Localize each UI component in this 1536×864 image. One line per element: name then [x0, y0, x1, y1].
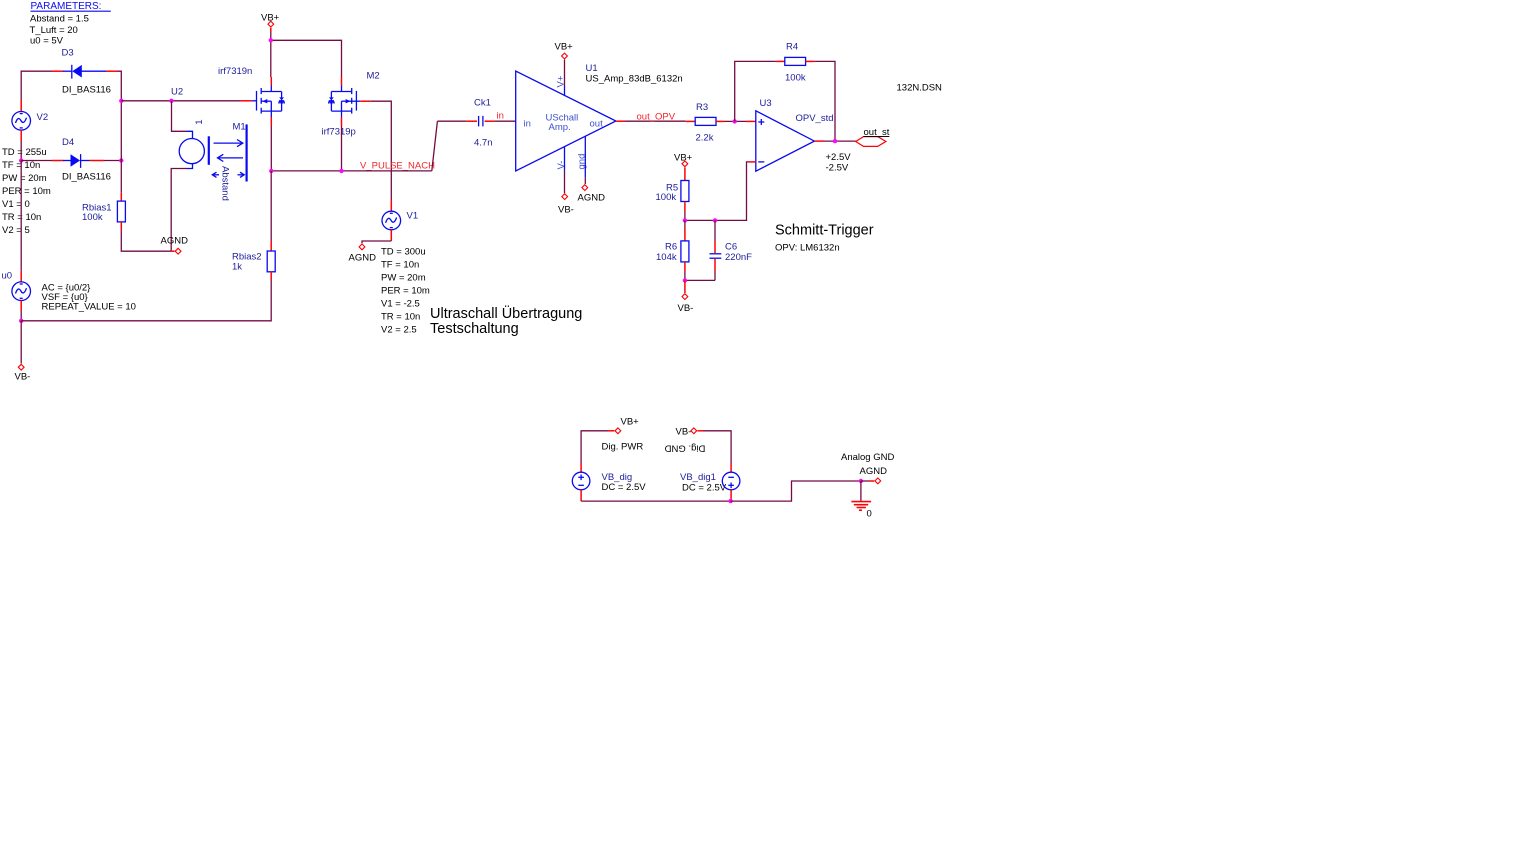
transistor Q1 irf7319n: [218, 66, 284, 126]
wire bottom dig rail: [581, 500, 731, 502]
svg-text:VB+: VB+: [555, 42, 574, 53]
svg-text:R6: R6: [665, 242, 677, 253]
node U2 junction: [119, 99, 123, 103]
resistor Rbias2: [232, 241, 275, 281]
svg-text:DI_BAS116: DI_BAS116: [62, 172, 111, 183]
wire Ck1 to U1: [495, 120, 516, 122]
diode D3: [26, 48, 118, 96]
svg-text:0: 0: [867, 509, 872, 520]
svg-text:T_Luft = 20: T_Luft = 20: [30, 25, 78, 36]
wire top-left loop to D3: [21, 71, 121, 101]
ground 0 symbol: [851, 502, 871, 520]
node junction u0 bottom: [19, 319, 23, 323]
source u0: [2, 271, 31, 312]
power terminal VB- R6: [678, 280, 694, 314]
svg-text:V1 = 0: V1 = 0: [2, 199, 30, 210]
pulse source V1: [382, 200, 418, 242]
svg-text:US_Amp_83dB_6132n: US_Amp_83dB_6132n: [586, 74, 683, 85]
ground terminal AGND V1: [349, 244, 377, 264]
svg-text:M2: M2: [367, 71, 380, 82]
svg-text:+2.5V: +2.5V: [826, 152, 852, 163]
svg-text:220nF: 220nF: [725, 252, 752, 263]
svg-text:2.2k: 2.2k: [696, 133, 714, 144]
wire V1 to AGND: [362, 241, 391, 243]
wire VB- to VB_dig1: [704, 431, 732, 463]
V2 parameter text: [2, 147, 51, 236]
svg-text:V1: V1: [407, 211, 419, 222]
Schmitt-Trigger text: [775, 223, 874, 254]
svg-text:4.7n: 4.7n: [474, 138, 493, 149]
svg-text:D4: D4: [62, 137, 74, 148]
off-page connector out_st: [856, 127, 890, 146]
wire U1 output: [616, 120, 686, 122]
wire U3 output: [814, 140, 855, 142]
svg-text:VB+: VB+: [621, 417, 640, 428]
power terminal VB- dig: [676, 427, 704, 438]
V1 parameter text: [381, 247, 430, 336]
svg-text:Ultraschall Übertragung: Ultraschall Übertragung: [430, 304, 582, 322]
svg-text:V1 = -2.5: V1 = -2.5: [381, 299, 420, 310]
wire Rbias2 top: [270, 171, 272, 241]
svg-text:Ck1: Ck1: [474, 98, 491, 109]
node junction dig rail: [728, 499, 732, 503]
wire V2 to D4 node: [20, 141, 22, 161]
power terminal VB+ R5: [674, 153, 693, 181]
svg-text:R3: R3: [696, 102, 708, 113]
svg-text:-2.5V: -2.5V: [826, 163, 849, 174]
svg-text:1: 1: [194, 120, 205, 125]
svg-text:AGND: AGND: [860, 466, 888, 477]
svg-text:V_PULSE_NACH: V_PULSE_NACH: [360, 160, 435, 171]
wire u0 to bottom node: [20, 311, 22, 321]
svg-text:VB-: VB-: [676, 427, 692, 438]
svg-text:REPEAT_VALUE = 10: REPEAT_VALUE = 10: [42, 302, 136, 313]
svg-text:Abstand = 1.5: Abstand = 1.5: [30, 14, 89, 25]
node junction M2 source: [339, 169, 343, 173]
svg-text:DC = 2.5V: DC = 2.5V: [682, 483, 727, 494]
svg-text:TF = 10n: TF = 10n: [381, 260, 419, 271]
svg-text:Testschaltung: Testschaltung: [430, 321, 519, 337]
op-amp U3 OPV_std: [756, 98, 834, 171]
u0 parameter text: [42, 283, 136, 313]
power terminal VB+ top: [261, 13, 280, 33]
svg-text:VB-: VB-: [678, 303, 694, 314]
svg-text:VB_dig1: VB_dig1: [680, 472, 716, 483]
svg-text:out_OPV: out_OPV: [637, 111, 676, 122]
ground terminal AGND right: [841, 452, 894, 484]
svg-text:1k: 1k: [232, 261, 242, 272]
svg-text:OPV: LM6132n: OPV: LM6132n: [775, 242, 840, 253]
wire NMOS source down to V_PULSE row: [270, 126, 272, 171]
wire bottom row to Rbias2: [21, 280, 271, 321]
parameters text block: [30, 1, 111, 47]
svg-text:V-: V-: [556, 161, 567, 170]
svg-text:Amp.: Amp.: [549, 122, 571, 133]
power terminal VB- left: [15, 364, 31, 382]
title text: [430, 304, 582, 337]
svg-text:OPV_std: OPV_std: [796, 113, 834, 124]
net V_PULSE_NACH wire row: [271, 121, 437, 171]
svg-text:132N.DSN: 132N.DSN: [897, 83, 943, 94]
dc source VB_dig1: [680, 463, 740, 501]
dc source VB_dig: [572, 463, 646, 501]
node junction VB+ rail: [269, 38, 273, 42]
power terminal VB+ U1: [555, 42, 574, 86]
capacitor C6: [710, 220, 753, 280]
svg-text:C6: C6: [725, 242, 737, 253]
svg-text:AGND: AGND: [578, 193, 606, 204]
U3 output voltage text: [826, 152, 852, 174]
svg-text:VB-: VB-: [558, 205, 574, 216]
wire U2 down to transducer: [172, 101, 187, 132]
node junction R5 R6: [683, 218, 687, 222]
svg-text:PER = 10m: PER = 10m: [381, 286, 430, 297]
resistor R5: [656, 181, 689, 221]
node junction NMOS source Rbias2: [269, 169, 273, 173]
svg-text:VB-: VB-: [15, 372, 31, 383]
svg-text:Schmitt-Trigger: Schmitt-Trigger: [775, 223, 874, 239]
node junction left D4: [19, 158, 23, 162]
svg-text:V2 = 2.5: V2 = 2.5: [381, 325, 417, 336]
capacitor Ck1: [466, 98, 495, 149]
wire U2 gate row: [121, 86, 240, 101]
wire elbow to Ck1: [437, 120, 466, 122]
svg-text:in: in: [524, 119, 531, 130]
svg-text:AGND: AGND: [349, 253, 377, 264]
svg-text:irf7319p: irf7319p: [322, 127, 356, 138]
wire M2 source down to V_PULSE row: [341, 126, 343, 171]
svg-text:irf7319n: irf7319n: [218, 66, 252, 77]
svg-text:U2: U2: [171, 86, 183, 97]
resistor Rbias1: [82, 193, 125, 231]
svg-text:TD = 300u: TD = 300u: [381, 247, 426, 258]
svg-text:PW = 20m: PW = 20m: [381, 273, 426, 284]
svg-text:M1: M1: [233, 122, 246, 133]
wire left column V2 to u0: [20, 161, 22, 271]
wire R4 down to output node: [815, 61, 835, 141]
op-amp U1 USchall Amp: [516, 63, 683, 178]
wire dig rail to analog gnd: [731, 481, 861, 501]
wire R3 to U3: [725, 120, 756, 122]
wire right column D3/D4 to Rbias1: [120, 101, 122, 193]
transducer M1: [179, 120, 246, 201]
svg-text:Dig. GND: Dig. GND: [665, 443, 706, 454]
svg-text:V2: V2: [37, 112, 49, 123]
wire feedback up to R4: [735, 61, 776, 121]
node junction right D4: [119, 158, 123, 162]
power terminal VB+ dig: [608, 417, 639, 434]
node junction U3 output: [833, 139, 837, 143]
svg-text:R4: R4: [786, 42, 798, 53]
diode D4: [21, 137, 121, 183]
resistor R6: [656, 220, 689, 280]
svg-text:Analog GND: Analog GND: [841, 452, 894, 463]
wire M2 gate to V1: [371, 101, 392, 199]
wire VB+ to VB_dig: [581, 431, 608, 463]
svg-text:100k: 100k: [785, 73, 806, 84]
svg-text:U1: U1: [586, 63, 598, 74]
svg-text:100k: 100k: [656, 192, 677, 203]
ground terminal AGND U1: [578, 178, 606, 204]
wire C6 bottom to R6 bottom: [685, 279, 715, 281]
wire Rbias1 to AGND: [121, 231, 171, 252]
svg-text:104k: 104k: [656, 252, 677, 263]
svg-text:TD = 255u: TD = 255u: [2, 147, 47, 158]
svg-text:PER = 10m: PER = 10m: [2, 186, 51, 197]
svg-text:out: out: [590, 119, 604, 130]
wire u0 to VB- terminal: [20, 321, 22, 364]
transistor Q2 irf7319p M2: [322, 71, 380, 138]
svg-text:out_st: out_st: [864, 127, 890, 138]
power terminal VB- U1: [558, 171, 574, 216]
node junction R3 feedback: [733, 119, 737, 123]
svg-text:100k: 100k: [82, 212, 103, 223]
svg-text:Abstand: Abstand: [220, 166, 231, 201]
svg-text:TR = 10n: TR = 10n: [381, 312, 420, 323]
svg-text:D3: D3: [62, 48, 74, 59]
pulse source V2: [12, 100, 48, 141]
resistor R4: [776, 42, 815, 84]
wire to ground 0: [860, 481, 862, 501]
svg-text:DC = 2.5V: DC = 2.5V: [602, 482, 647, 493]
node junction R6 bottom: [683, 278, 687, 282]
svg-text:V2 = 5: V2 = 5: [2, 225, 30, 236]
node junction C6 top: [713, 218, 717, 222]
wire VB+ rail: [271, 32, 342, 77]
node junction analog gnd: [859, 479, 863, 483]
resistor R3: [686, 102, 725, 144]
svg-text:u0: u0: [2, 271, 13, 282]
svg-text:in: in: [497, 110, 504, 121]
svg-text:PW = 20m: PW = 20m: [2, 173, 47, 184]
ground terminal AGND left: [161, 235, 189, 254]
svg-text:PARAMETERS:: PARAMETERS:: [31, 1, 102, 12]
svg-text:U3: U3: [760, 98, 772, 109]
svg-text:u0 = 5V: u0 = 5V: [30, 36, 64, 47]
svg-text:DI_BAS116: DI_BAS116: [62, 85, 111, 96]
svg-text:AGND: AGND: [161, 235, 189, 246]
wire U3 minus input elbow: [685, 162, 756, 221]
node junction U2 transducer tap: [169, 99, 173, 103]
svg-text:Dig. PWR: Dig. PWR: [602, 442, 644, 453]
wire transducer bottom to AGND: [171, 169, 186, 252]
